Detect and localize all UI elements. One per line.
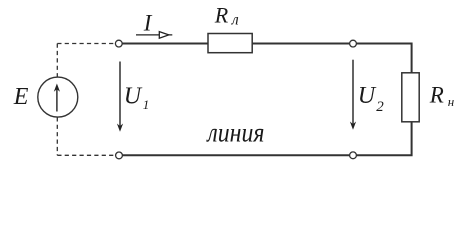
wire (dashed, top-left: from corner above source E to node N1) xyxy=(57,43,115,45)
current arrow I (shaft with open triangle head) xyxy=(136,34,172,36)
node N1 (top-left terminal circle) xyxy=(115,40,122,47)
wire (dashed, bottom-left: corner to node N3) xyxy=(57,154,115,156)
wire (dashed, left vertical: corner down to source E top) xyxy=(56,44,58,78)
svg-text:1: 1 xyxy=(143,97,150,112)
svg-text:л: л xyxy=(231,12,239,29)
svg-text:R: R xyxy=(429,83,444,108)
svg-text:I: I xyxy=(143,10,153,35)
node N3 (bottom-left terminal circle) xyxy=(116,152,123,159)
svg-text:2: 2 xyxy=(376,99,384,115)
resistor Rл (series line resistance, horizontal rect) xyxy=(208,34,252,53)
svg-text:н: н xyxy=(448,94,454,109)
node N2 (top-right terminal circle) xyxy=(350,40,357,47)
wire (top, node N1 to resistor Rл left terminal) xyxy=(122,43,208,45)
node N4 (bottom-right terminal circle) xyxy=(350,152,357,159)
resistor Rн (load, vertical rect) xyxy=(402,73,419,122)
wire (dashed, left vertical: source E bottom down to bottom-left corner) xyxy=(56,117,58,155)
svg-text:R: R xyxy=(214,3,229,28)
source E internal arrow (pointing up) xyxy=(56,87,58,112)
svg-text:E: E xyxy=(13,84,29,110)
svg-text:U: U xyxy=(358,83,377,109)
voltage arrow U2 (pointing down) xyxy=(352,60,354,127)
source E (circle symbol) xyxy=(38,77,78,117)
svg-text:U: U xyxy=(124,84,143,110)
wire (right vertical below Rн to bottom-right corner, then bottom wire to node N3) xyxy=(122,122,412,156)
svg-text:линия: линия xyxy=(206,118,265,148)
wire (top, resistor Rл right terminal through node N2 to top-right corner, then down to Rн top) xyxy=(252,44,412,74)
voltage arrow U1 (pointing down) xyxy=(119,62,121,130)
